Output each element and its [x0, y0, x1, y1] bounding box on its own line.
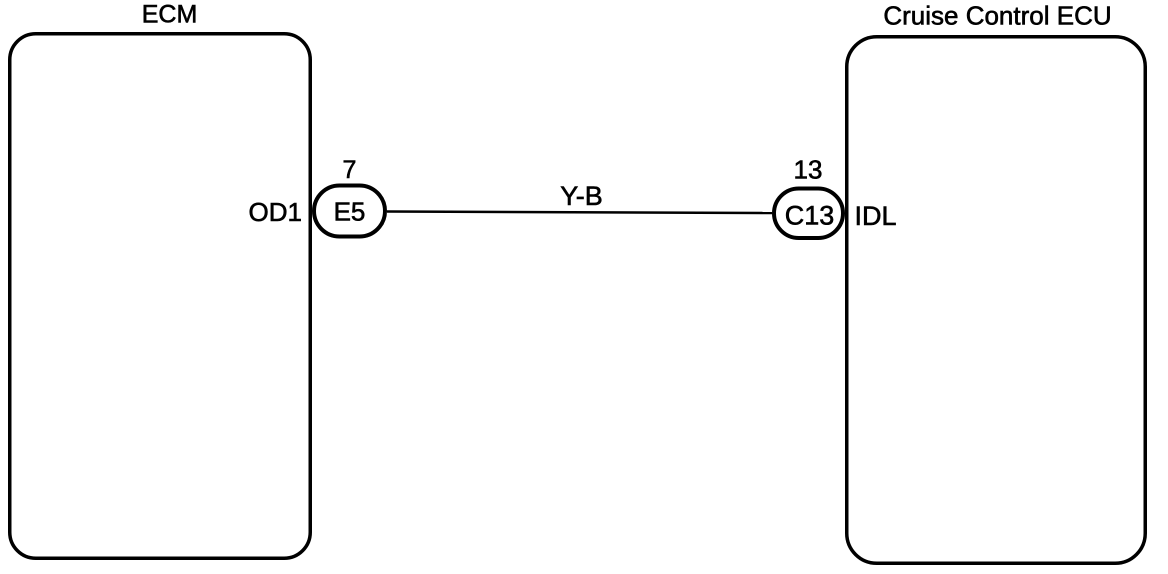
ECM block U1 — [10, 34, 311, 559]
svg-text:Y-B: Y-B — [560, 181, 603, 211]
Cruise Control ECU block U2 — [847, 37, 1146, 564]
svg-text:Cruise Control ECU: Cruise Control ECU — [883, 1, 1111, 31]
svg-text:ECM: ECM — [142, 1, 198, 29]
connector pin C13 — [774, 189, 843, 239]
svg-text:E5: E5 — [334, 197, 366, 227]
svg-text:C13: C13 — [785, 201, 835, 231]
svg-text:OD1: OD1 — [249, 197, 302, 227]
connector pin E5 — [314, 186, 385, 237]
svg-text:IDL: IDL — [855, 201, 897, 231]
svg-text:13: 13 — [794, 155, 823, 185]
svg-text:7: 7 — [343, 156, 357, 184]
wire Y-B from E5 to C13 — [387, 212, 772, 214]
